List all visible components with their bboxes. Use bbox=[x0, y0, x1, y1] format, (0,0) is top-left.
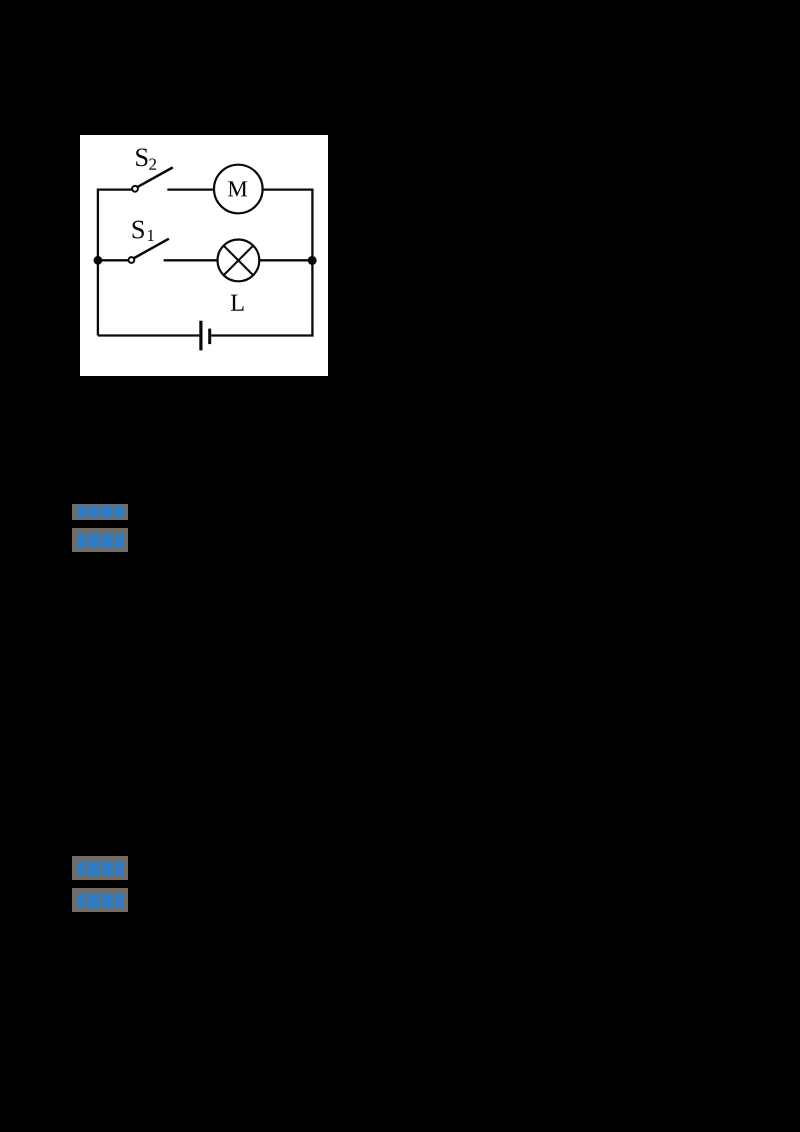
figure panel (white background of circuit diagram) bbox=[80, 135, 328, 376]
motor U1 circle bbox=[214, 165, 263, 214]
wire: middle branch, switch S1 to lamp bbox=[164, 259, 219, 261]
lamp L cross bbox=[224, 246, 254, 276]
motor letter M bbox=[228, 181, 247, 196]
switch S1 pivot circle bbox=[129, 257, 135, 263]
wire: top branch, corner to switch S2 pivot bbox=[97, 188, 132, 190]
label L bbox=[231, 295, 244, 311]
switch S2 pivot circle bbox=[132, 186, 138, 192]
switch S2 blade (open) bbox=[138, 167, 173, 186]
wire: left vertical bus bbox=[97, 190, 99, 336]
switch S1 blade (open) bbox=[134, 239, 169, 258]
wire: right vertical bus bbox=[311, 190, 313, 336]
hyperlink badge: analysis link 2 bbox=[72, 888, 128, 912]
battery BT1 long plate (positive) bbox=[199, 321, 202, 351]
battery BT1 short plate (negative) bbox=[208, 329, 211, 345]
wire: top branch, motor to right bus bbox=[263, 188, 314, 190]
wire: middle branch, lamp to right node bbox=[259, 259, 312, 261]
wire: bottom branch, battery to right bus bbox=[211, 334, 313, 336]
lamp L circle bbox=[218, 240, 260, 282]
hyperlink badge: answer link 2 bbox=[72, 856, 128, 880]
hyperlink badge: answer link 1 bbox=[72, 504, 128, 520]
label S1 bbox=[133, 221, 154, 241]
wire: top branch, switch S2 to motor bbox=[167, 188, 215, 190]
node: left junction dot bbox=[94, 256, 103, 265]
wire: middle branch, node to switch S1 pivot bbox=[98, 259, 128, 261]
node: right junction dot bbox=[308, 256, 317, 265]
hyperlink badge: analysis link 1 bbox=[72, 528, 128, 552]
label S2 bbox=[136, 148, 156, 169]
wire: bottom branch, left bus to battery bbox=[98, 334, 199, 336]
